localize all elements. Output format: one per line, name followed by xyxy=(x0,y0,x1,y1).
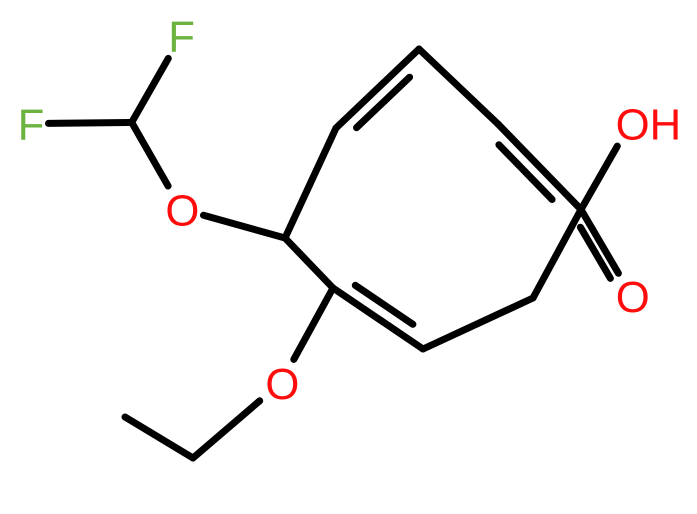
svg-text:O: O xyxy=(165,187,199,236)
svg-text:O: O xyxy=(265,360,299,409)
svg-text:OH: OH xyxy=(616,100,682,149)
svg-text:F: F xyxy=(168,13,195,62)
svg-text:O: O xyxy=(616,273,650,322)
svg-text:F: F xyxy=(18,101,45,150)
